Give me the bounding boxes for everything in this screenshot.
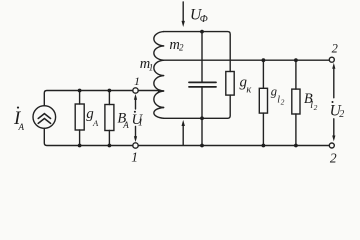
junction dot gA top [78,89,82,93]
inductor coil m1/m2 (six arcs) [154,32,164,119]
voltage arrow U2 (double headed) [332,63,335,142]
resistor gl2 [259,60,267,145]
junction dot top wire / capacitor [200,30,204,34]
svg-text:g: g [271,84,277,98]
junction dot bl2 bottom [294,144,298,148]
wire: tank bottom from coil bottom to gK bottom [164,95,231,118]
resistor gK [226,72,234,96]
label U2 (voltage) [330,101,345,120]
svg-text:A: A [122,120,129,130]
svg-text:A: A [92,118,99,128]
node 2 terminal bottom [329,143,334,148]
svg-text:2: 2 [281,98,285,107]
junction dot gA bottom [78,144,82,148]
current source IA [33,106,56,129]
svg-text:Φ: Φ [200,14,208,25]
svg-text:1: 1 [138,117,143,128]
label m1 [140,56,154,74]
svg-text:2: 2 [332,41,338,55]
node 1 terminal top [133,88,138,93]
capacitor [189,32,216,119]
node 1 terminal bottom [133,143,138,148]
label gA [86,106,99,128]
junction dot gl2 bottom [262,144,266,148]
svg-text:1: 1 [134,74,140,88]
svg-text:1: 1 [131,150,138,165]
junction dot bottom rail / capacitor column [200,144,204,148]
wire: tap from node 1 to coil with arrow [138,89,164,93]
svg-text:2: 2 [314,103,318,112]
voltage arrow U1 (double headed) [134,94,137,142]
label gK [240,74,252,95]
label U1 (voltage) [132,111,144,129]
wire: output tap from coil to node 2 [164,59,330,61]
label m2 [169,37,184,53]
svg-text:2: 2 [330,151,337,166]
svg-text:2: 2 [179,42,184,52]
svg-text:A: A [18,122,25,132]
label bl2 [304,91,318,112]
feed arrow at bottom (up) [182,120,185,145]
wire: capacitor column down to bottom rail [201,118,203,145]
svg-text:2: 2 [339,109,344,120]
label bA [117,110,129,130]
svg-text:к: к [246,84,251,95]
junction dot bA bottom [108,144,112,148]
wire: bottom rail with left corner up to current source [44,128,329,145]
junction dot gl2 top [262,58,266,62]
feed arrow U_phi (down) [182,2,185,27]
junction dot bA top [108,89,112,93]
wire: top wire from coil top to gK branch [164,32,231,72]
resistor gA [75,91,84,146]
resistor bl2 [292,60,300,145]
junction dot tank bottom / capacitor [200,116,204,120]
node 2 terminal top [329,57,334,62]
label U_phi [190,7,208,25]
wire: input top wire from current source to node 1 [44,91,133,106]
label IA (source current) [13,107,25,132]
junction dot bl2 top [294,58,298,62]
label gl2 [271,84,285,106]
svg-text:1: 1 [149,64,154,74]
resistor bA [105,91,114,146]
